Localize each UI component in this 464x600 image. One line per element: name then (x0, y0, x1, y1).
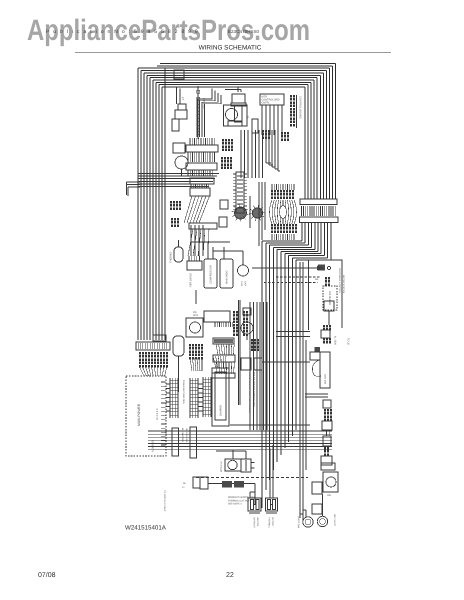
svg-text:W241515401A: W241515401A (125, 525, 167, 532)
connector bar P5 (189, 223, 217, 229)
wire compressor cluster feeds (191, 225, 243, 265)
svg-text:E23CS78HSS0: E23CS78HSS0 (228, 29, 260, 34)
fresh food fan circle (241, 322, 253, 334)
wire staircase below CN2 (262, 223, 331, 260)
wire stub (326, 430, 328, 436)
connector comb column B upper (190, 378, 195, 418)
loom center ellipse (280, 206, 287, 219)
switch S2 small box (178, 104, 186, 110)
wire center verticals lower (250, 302, 267, 430)
freezer lamp circle (303, 517, 313, 527)
connector CN1 pin row (302, 206, 336, 216)
svg-text:AIR FAN: AIR FAN (324, 374, 327, 384)
connector comb right chain top (323, 325, 325, 328)
start device bar (187, 261, 202, 270)
svg-text:AL 1500: AL 1500 (334, 336, 337, 345)
door switch box 1 (312, 482, 322, 494)
connector P1 pins above (190, 138, 214, 145)
connector comb row above main board (139, 352, 141, 355)
svg-text:CUTOUT: CUTOUT (271, 517, 274, 527)
svg-text:P u b l i c a t i o n N o :: P u b l i c a t i o n N o : 5 9 9 5 5 8 … (46, 29, 199, 35)
wire bend into solenoid (225, 87, 241, 92)
connector comb small below board (262, 130, 264, 133)
terminal block small left (193, 477, 200, 488)
inline connector box 1 (321, 330, 330, 338)
connector comb dark J4 (221, 157, 223, 160)
compressor box (204, 259, 217, 288)
connector comb beside circle (251, 339, 253, 342)
svg-text:COMPRESSOR: COMPRESSOR (210, 265, 213, 284)
svg-text:CAP: CAP (244, 281, 247, 286)
svg-text:ICE MAKER: ICE MAKER (328, 291, 331, 305)
wire feeds to heaters (250, 491, 255, 493)
wire jog bundle left of bowtie (266, 130, 280, 171)
wire loom below comb (190, 358, 202, 371)
water solenoid bar (231, 103, 246, 106)
svg-text:J1 2 3 4 5: J1 2 3 4 5 (156, 408, 159, 420)
connector pin column J2 (290, 95, 292, 98)
wire loom barrel shape (270, 200, 297, 224)
svg-text:TO GND BLK 5 WHT: TO GND BLK 5 WHT (163, 490, 166, 512)
svg-text:AL: AL (315, 277, 319, 281)
inline connector box 3 (322, 421, 332, 430)
wire long horizontal upper harness (230, 424, 310, 426)
svg-text:CONTROL BOARD: CONTROL BOARD (299, 96, 302, 119)
wire dashed horizontal 1 (276, 276, 320, 278)
svg-text:THERMO: THERMO (170, 252, 173, 263)
water solenoid body (235, 106, 243, 122)
svg-text:WATER SYSTEM: WATER SYSTEM (342, 275, 345, 293)
connector comb column A upper (170, 378, 175, 418)
svg-text:MAIN POWER: MAIN POWER (137, 403, 141, 426)
svg-text:RUN: RUN (240, 281, 243, 286)
svg-text:THERMAL: THERMAL (268, 517, 271, 529)
wire horizontal to dispenser (252, 267, 317, 269)
title underline (75, 52, 391, 54)
connector comb dark J3 (222, 139, 224, 142)
wire thick vertical pair (238, 300, 240, 405)
inline connector box 0 (324, 301, 334, 311)
wire bottom chain horizontal (208, 483, 255, 485)
svg-text:HEATER: HEATER (256, 517, 259, 526)
water valve coil box (225, 459, 241, 471)
wire into water valve top (216, 450, 246, 452)
wire right chain verticals (299, 262, 301, 518)
overload capsule (173, 336, 184, 356)
auger motor circle (175, 156, 188, 169)
svg-text:GRN YEL ORN: GRN YEL ORN (185, 428, 188, 443)
svg-text:BLK WHT RED: BLK WHT RED (181, 428, 184, 443)
thermostat box (175, 110, 187, 119)
sensor box (172, 119, 179, 131)
water solenoid box top (232, 94, 245, 103)
connector comb right chain 4 (324, 447, 326, 450)
svg-text:WIRING SCHEMATIC: WIRING SCHEMATIC (199, 45, 262, 52)
wire fan into main board (139, 366, 167, 376)
terminal chain vertical with ticks (197, 86, 200, 139)
connector tall rect lower A (172, 428, 179, 456)
connector bar P2 (186, 163, 217, 170)
svg-text:CNTRL: CNTRL (262, 102, 271, 105)
wire long right-center verticals (262, 241, 296, 508)
wire stub below start device (195, 290, 197, 304)
connector bar P4 with pins (190, 188, 210, 196)
wire harness horizontals through connectors (148, 431, 332, 450)
wire lamp feeds (300, 513, 303, 515)
micro switch box (220, 200, 228, 209)
main power board box dotted (126, 376, 166, 456)
aux switch box (310, 352, 320, 360)
svg-text:START DEV: START DEV (189, 273, 192, 288)
svg-text:THERMAL CUT OUT: THERMAL CUT OUT (228, 499, 250, 502)
splice dark glyph 2 (234, 481, 244, 488)
wire slant fans from connector stack (184, 196, 210, 256)
connector comb mid (189, 344, 191, 347)
heater bottom bar 1 (249, 512, 260, 514)
dispenser motor circle with spokes (232, 205, 249, 222)
svg-text:LT: LT (181, 97, 185, 100)
water valve glyph (318, 265, 325, 271)
micro switch box lower (219, 217, 227, 227)
defrost heater capsule 2 (266, 498, 278, 511)
connector P1 pins below (188, 152, 214, 162)
electronic control board box with text (260, 94, 284, 105)
terminal block bottom left (200, 477, 208, 489)
timer motor box with circle (186, 318, 203, 337)
connector comb dark J5 (170, 201, 172, 204)
svg-text:TO J2: TO J2 (347, 338, 350, 345)
svg-text:07/08: 07/08 (38, 571, 56, 579)
wire left crossing horizontals to connector stack (138, 174, 219, 187)
door switch box 2 (312, 504, 322, 514)
wire loom small converge (216, 344, 234, 355)
wire hlines to aux switch (276, 331, 310, 333)
run winding box (220, 259, 233, 288)
svg-text:DISPENSER CONTROL: DISPENSER CONTROL (338, 268, 341, 294)
wire left hook stubs (127, 182, 141, 196)
inline connector box 5 (321, 456, 332, 465)
svg-text:SEE NOTE 4: SEE NOTE 4 (228, 503, 242, 506)
connector label bar above main board (136, 342, 170, 350)
connector comb dark top of loom (271, 190, 273, 193)
control box with pins (204, 311, 230, 322)
connector comb right chain 3 (324, 409, 326, 412)
run capacitor circle (238, 265, 249, 276)
connector bar P1 (186, 145, 218, 152)
connector pins below loom (272, 234, 294, 240)
svg-text:REF LIGHT: REF LIGHT (333, 514, 336, 527)
wire left bundle verticals wrapping from top bus (138, 68, 165, 340)
auger motor base box (228, 121, 242, 126)
wire top bus horizontal lines (138, 64, 336, 88)
crusher motor circle with spokes (249, 205, 265, 221)
wire fan below bar (216, 362, 234, 374)
wire top bus right wrap verticals to connector bar (305, 64, 336, 200)
harness bar mid (213, 338, 234, 344)
wire vertical beside pin column (296, 95, 298, 128)
damper motor tall box inner (215, 372, 226, 420)
connector comb columns (233, 311, 235, 314)
svg-text:WTR VLV: WTR VLV (220, 461, 223, 472)
main board pin ticks right edge (161, 382, 166, 445)
auger motor box (173, 143, 185, 153)
auger motor circle (226, 109, 238, 121)
connector bar second segment (153, 335, 166, 341)
connector bar P3 (190, 178, 214, 184)
water valve body (241, 459, 251, 472)
harness bar mid2 (213, 355, 235, 362)
connector comb right chain 2 (323, 338, 325, 341)
wire stub below box0 (328, 311, 330, 325)
resistor R1 small box on bus (174, 70, 184, 79)
vertical connector ladder (236, 172, 244, 213)
defrost heater capsule 1 (248, 498, 261, 511)
wire verticals center descending (241, 130, 263, 178)
splice dark glyph 1 (222, 481, 232, 488)
heater bottom bar 2 (266, 512, 277, 514)
inline connector box 2 (323, 400, 331, 408)
connector P2 pins below (188, 170, 212, 176)
damper motor tall box outer (212, 368, 229, 426)
svg-text:FRZ LIGHT: FRZ LIGHT (298, 516, 301, 528)
air circulation fan tall box (320, 352, 330, 388)
wire fan into damper (213, 356, 226, 368)
mullion heater flat box (321, 463, 335, 470)
diode glyph on wire (317, 266, 324, 271)
svg-text:DEFROST: DEFROST (253, 517, 256, 529)
wire verticals down to connector stack (197, 99, 205, 137)
splice dark small (315, 347, 321, 352)
connector comb column C upper (203, 377, 208, 417)
wire stubs box to combs upper (166, 384, 170, 411)
svg-text:MAIN WDG: MAIN WDG (226, 270, 229, 284)
dashed partition line (196, 477, 308, 479)
fresh food lamp circle (317, 516, 327, 526)
svg-text:22: 22 (226, 572, 234, 579)
connector comb small below board 2 (281, 132, 283, 135)
wire verticals beside spoked motors (250, 182, 265, 246)
connector pins above loom (272, 184, 294, 190)
relay box pair lower (241, 358, 251, 370)
harness bar mid3 (212, 373, 235, 378)
dispenser control box outline (309, 260, 343, 330)
wire mid elbow group from bus (197, 89, 221, 104)
wire stub pair to defrost thermostat (177, 87, 181, 105)
connector tall rect lower B (190, 427, 197, 458)
light switch box with circle (323, 472, 338, 492)
connector comb dark J6 (171, 218, 173, 221)
wire hlines under air fan (305, 393, 328, 395)
defrost thermostat capsule (174, 247, 183, 262)
svg-text:DAMPER: DAMPER (220, 405, 223, 416)
connector bar CN1 (300, 199, 337, 205)
ice maker dashed box (323, 286, 337, 310)
wire dashed horizontal 2 (264, 282, 318, 284)
connector comb dark bottom of loom (271, 224, 273, 227)
inline connector box 4 (323, 436, 331, 446)
connector bar CN2 (300, 217, 339, 223)
ptc starter box (252, 119, 258, 133)
thermistor box small (243, 308, 251, 315)
connector comb small in box (325, 277, 327, 280)
svg-text:MTR: MTR (193, 314, 198, 317)
wire fanout from control board (262, 105, 282, 135)
svg-text:P1 BLK WHT RED ORN: P1 BLK WHT RED ORN (182, 380, 185, 404)
solenoid outer box (224, 105, 248, 126)
wire curved hooks (312, 360, 321, 376)
